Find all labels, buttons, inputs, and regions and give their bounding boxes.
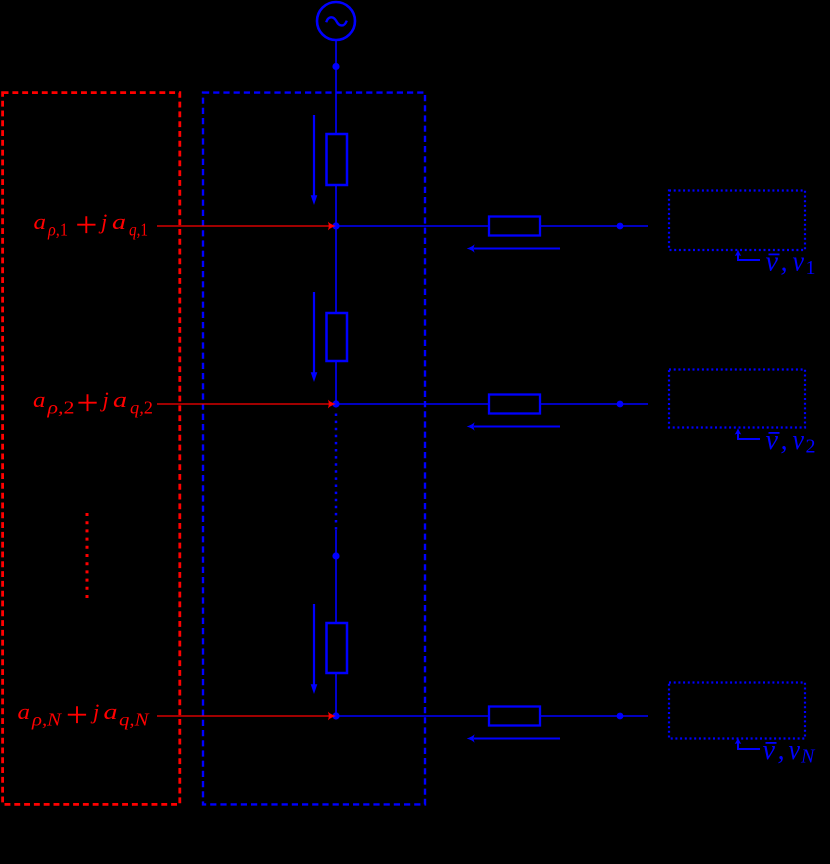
svg-text:v , v 1: v , v 1 (766, 246, 816, 279)
svg-text:v , v 2: v , v 2 (766, 425, 816, 458)
